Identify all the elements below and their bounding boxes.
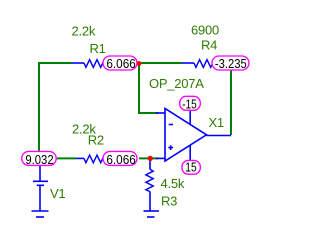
svg-text:R3: R3	[161, 193, 177, 208]
svg-text:6.066: 6.066	[106, 56, 135, 71]
svg-text:6900: 6900	[191, 23, 219, 38]
svg-text:2.2k: 2.2k	[72, 24, 96, 39]
svg-text:R4: R4	[201, 38, 217, 53]
svg-text:-15: -15	[182, 96, 197, 111]
svg-text:X1: X1	[209, 115, 224, 130]
svg-text:V1: V1	[50, 186, 65, 201]
svg-text:OP_207A: OP_207A	[149, 76, 204, 91]
svg-text:-3.235: -3.235	[215, 56, 247, 71]
svg-text:R2: R2	[88, 133, 104, 148]
svg-text:9.032: 9.032	[25, 152, 53, 167]
svg-text:4.5k: 4.5k	[161, 176, 185, 191]
svg-text:R1: R1	[90, 41, 106, 56]
svg-text:6.066: 6.066	[106, 152, 135, 167]
svg-text:15: 15	[185, 160, 196, 175]
